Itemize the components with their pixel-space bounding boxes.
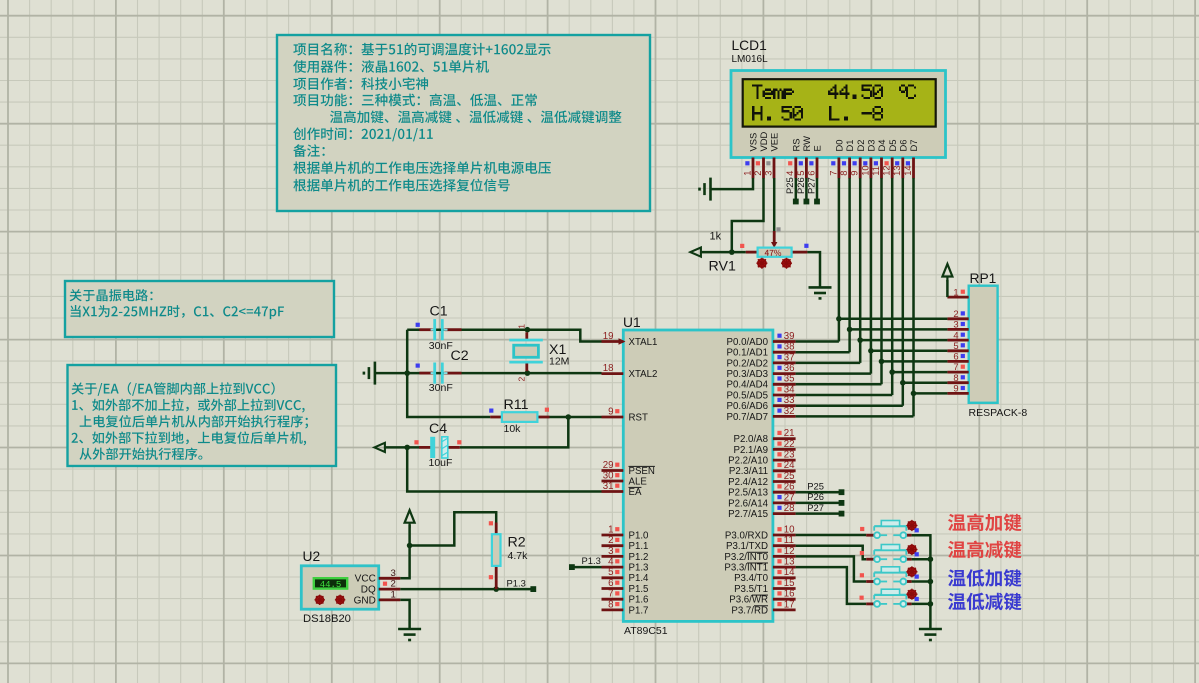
svg-text:P26: P26 [795, 177, 806, 194]
svg-text:D4: D4 [876, 140, 887, 152]
capacitor C2 [419, 372, 432, 375]
svg-text:33: 33 [784, 395, 795, 406]
svg-text:P0.7/AD7: P0.7/AD7 [727, 412, 768, 423]
svg-text:22: 22 [784, 439, 795, 450]
svg-text:EA: EA [629, 487, 642, 498]
svg-text:9: 9 [608, 406, 613, 417]
svg-text:RV1: RV1 [709, 259, 736, 275]
svg-text:DS18B20: DS18B20 [303, 613, 351, 625]
ground for VSS [700, 178, 711, 201]
wire RP1 pin4 branch [860, 339, 947, 342]
RV1 adjust knobs [756, 258, 767, 269]
svg-text:3: 3 [953, 319, 958, 330]
svg-text:1: 1 [391, 589, 396, 600]
svg-text:RP1: RP1 [970, 271, 997, 286]
svg-text:P27: P27 [807, 502, 824, 513]
svg-text:26: 26 [784, 482, 795, 493]
ground left of C2 [364, 362, 375, 385]
LCD screen [743, 79, 936, 126]
U1 right pins [773, 340, 796, 343]
note box EA [68, 365, 337, 466]
svg-text:P1.1: P1.1 [629, 541, 649, 552]
svg-text:30: 30 [603, 470, 614, 481]
U1 XTAL1 drive arrow [619, 338, 626, 344]
svg-text:P3.3/INT1: P3.3/INT1 [724, 563, 768, 574]
svg-text:29: 29 [603, 460, 614, 471]
svg-text:4.7k: 4.7k [508, 550, 529, 562]
svg-text:39: 39 [784, 331, 795, 342]
svg-text:P2.2/A10: P2.2/A10 [728, 456, 768, 467]
svg-text:27: 27 [784, 492, 795, 503]
svg-text:5: 5 [795, 171, 806, 176]
U2 thermometer knobs [315, 595, 325, 605]
svg-text:13: 13 [891, 165, 902, 175]
wire RP1 pin7 branch [892, 371, 947, 374]
LCD LM016L body [731, 71, 946, 158]
svg-text:P25: P25 [807, 480, 824, 491]
wire VDD down to RV1 net [732, 178, 764, 252]
svg-text:P1.4: P1.4 [629, 573, 650, 584]
svg-text:12: 12 [784, 546, 795, 557]
wire P0.7 to LCD D7 column [796, 415, 914, 418]
svg-text:4: 4 [953, 329, 958, 340]
wire LCD D6 vertical [902, 178, 905, 406]
wire P0.0 to LCD D0 column [796, 340, 839, 343]
button 3 actuator [906, 566, 917, 577]
power arrow terminal at C4 left [374, 443, 385, 452]
svg-text:P1.0: P1.0 [629, 530, 650, 541]
svg-text:2: 2 [391, 579, 396, 590]
wire LCD D4 vertical [880, 178, 883, 384]
svg-text:D0: D0 [834, 140, 845, 152]
U2 pin stubs and numbers [379, 577, 401, 580]
wire R11 to RST pin [550, 416, 602, 419]
LCD pin state squares [745, 161, 749, 165]
svg-text:P1.7: P1.7 [629, 605, 649, 616]
svg-text:RS: RS [790, 138, 801, 151]
wire U2 VCC up to power [400, 525, 409, 579]
svg-text:8: 8 [608, 599, 613, 610]
wire P1.3 net terminal [572, 566, 602, 569]
button 2 actuator [906, 544, 917, 555]
svg-text:9: 9 [953, 383, 958, 394]
svg-text:RW: RW [801, 136, 812, 152]
svg-text:7: 7 [608, 589, 613, 600]
svg-text:15: 15 [784, 578, 795, 589]
svg-text:2: 2 [516, 377, 526, 382]
wire XTAL2 net rail [376, 372, 602, 375]
svg-text:5: 5 [608, 567, 613, 578]
svg-text:19: 19 [603, 331, 614, 342]
wire LCD D7 vertical [912, 178, 915, 416]
power arrow terminal at RV1 left [690, 248, 701, 257]
svg-text:AT89C51: AT89C51 [624, 625, 668, 637]
resistor R11 [490, 416, 502, 419]
U1 left pins [602, 340, 624, 343]
power arrow above U2 [405, 510, 415, 528]
wire LCD D2 vertical [859, 178, 862, 363]
svg-text:VEE: VEE [769, 133, 780, 152]
svg-text:23: 23 [784, 450, 795, 461]
wire RP1 pin6 branch [882, 360, 948, 363]
wire VCC branch to R2 top [410, 512, 497, 545]
svg-text:17: 17 [784, 599, 795, 610]
svg-text:P2.7/A15: P2.7/A15 [728, 509, 768, 520]
svg-text:P3.0/RXD: P3.0/RXD [725, 530, 768, 541]
svg-text:P3.4/T0: P3.4/T0 [734, 573, 769, 584]
svg-text:12M: 12M [549, 356, 569, 368]
wire P3.0 to button 1 [796, 534, 867, 537]
svg-text:XTAL2: XTAL2 [629, 369, 658, 380]
power arrow at RP1 [942, 264, 952, 282]
svg-text:9: 9 [849, 171, 860, 176]
svg-text:14: 14 [784, 567, 795, 578]
svg-text:5: 5 [953, 340, 958, 351]
svg-text:37: 37 [784, 352, 795, 363]
svg-text:2: 2 [953, 308, 958, 319]
svg-text:P0.1/AD1: P0.1/AD1 [727, 348, 768, 359]
svg-text:C4: C4 [429, 421, 447, 437]
wire P3.2 to button 3 [796, 556, 867, 581]
wires P2.5 P2.6 P2.7 to net terminals [796, 491, 842, 494]
svg-text:P3.6/WR: P3.6/WR [729, 595, 768, 606]
svg-text:10k: 10k [504, 423, 522, 435]
svg-text:P1.3: P1.3 [582, 555, 601, 566]
svg-text:1: 1 [953, 286, 958, 297]
svg-text:U2: U2 [303, 549, 321, 564]
svg-text:P2.3/A11: P2.3/A11 [729, 466, 768, 477]
wire XTAL1 net top rail [407, 330, 601, 342]
svg-text:P1.3: P1.3 [507, 577, 526, 588]
svg-text:D2: D2 [855, 140, 866, 152]
svg-text:1: 1 [608, 524, 613, 535]
wire RP1 pin9 branch [914, 392, 948, 395]
svg-text:RST: RST [629, 412, 648, 423]
svg-text:P3.5/T1: P3.5/T1 [734, 584, 768, 595]
svg-text:C2: C2 [451, 348, 469, 364]
svg-text:XTAL1: XTAL1 [629, 337, 658, 348]
svg-text:P2.6/A14: P2.6/A14 [728, 498, 768, 509]
svg-text:LM016L: LM016L [732, 54, 769, 65]
svg-text:P1.6: P1.6 [629, 595, 649, 606]
svg-text:2: 2 [608, 535, 613, 546]
label button 1 red [948, 514, 1021, 532]
svg-text:34: 34 [784, 384, 795, 395]
ground below buttons [919, 629, 942, 640]
svg-text:11: 11 [870, 166, 881, 176]
LCD text row2 H. 50 L. -8 [752, 106, 762, 121]
push button 4 [866, 603, 874, 606]
svg-text:38: 38 [784, 342, 795, 353]
wire C4 left junction and EA run [385, 446, 419, 449]
wire RST junction down to C4 [460, 417, 569, 447]
wire LCD D1 vertical [848, 178, 851, 352]
U2 display 44.5 [314, 578, 347, 588]
svg-text:44.5: 44.5 [320, 580, 342, 590]
svg-text:4: 4 [784, 171, 795, 176]
svg-text:RESPACK-8: RESPACK-8 [969, 407, 1028, 419]
wire P0.1 to LCD D1 column [796, 351, 850, 354]
wire LCD D5 vertical [891, 178, 894, 395]
label button 4 blue [948, 593, 1021, 611]
svg-text:P27: P27 [805, 177, 816, 194]
svg-text:LCD1: LCD1 [732, 38, 767, 53]
svg-text:P0.3/AD3: P0.3/AD3 [727, 369, 768, 380]
svg-text:14: 14 [902, 165, 913, 175]
svg-text:C1: C1 [430, 304, 448, 320]
resistor pack RP1 body [969, 286, 998, 403]
wire P0.5 to LCD D5 column [796, 394, 893, 397]
svg-text:1: 1 [517, 324, 527, 329]
wire P0.2 to LCD D2 column [796, 362, 861, 365]
svg-text:10: 10 [859, 165, 870, 175]
svg-text:4: 4 [608, 557, 614, 568]
wire P3.3 to button 4 [796, 567, 867, 604]
svg-text:16: 16 [784, 589, 795, 600]
RV1 state squares [740, 244, 744, 248]
push button 2 [866, 558, 874, 561]
resistor R2 [495, 523, 498, 535]
button 4 actuator [906, 589, 917, 600]
svg-text:7: 7 [827, 171, 838, 176]
label button 2 red [948, 541, 1021, 559]
capacitor C1 [419, 328, 432, 331]
svg-text:1: 1 [741, 171, 752, 176]
wire DQ to P1.3 terminal [400, 588, 533, 591]
svg-text:3: 3 [608, 546, 613, 557]
svg-text:28: 28 [784, 503, 795, 514]
svg-text:8: 8 [838, 171, 849, 176]
wire buttons to ground rail [912, 535, 931, 629]
wire LCD D3 vertical [870, 178, 873, 374]
svg-text:P2.4/A12: P2.4/A12 [728, 477, 768, 488]
svg-text:11: 11 [784, 535, 794, 546]
project info text box [277, 35, 650, 211]
svg-text:1k: 1k [710, 231, 722, 243]
wire RV1 left net with junction [701, 251, 746, 254]
wire RP1 pin1 to power [946, 280, 949, 297]
wire RP1 pin2 branch [839, 318, 948, 321]
svg-text:36: 36 [784, 363, 795, 374]
svg-text:U1: U1 [623, 315, 641, 330]
svg-text:35: 35 [784, 374, 795, 385]
wire left rail C1-C2-RST [407, 330, 490, 417]
svg-text:VDD: VDD [758, 131, 769, 151]
ground at RV1 [809, 287, 832, 298]
svg-text:21: 21 [784, 428, 795, 439]
svg-text:P0.5/AD5: P0.5/AD5 [727, 390, 768, 401]
svg-text:18: 18 [603, 363, 614, 374]
wire VSS to ground [711, 178, 753, 189]
RP1 pin stubs and numbers [947, 296, 968, 299]
wire U2 GND to ground [400, 600, 409, 629]
push button 3 [866, 580, 874, 583]
svg-text:GND: GND [354, 595, 376, 606]
ground below U2 [398, 629, 421, 640]
svg-text:P2.1/A9: P2.1/A9 [734, 445, 768, 456]
wire RP1 pin3 branch [850, 328, 948, 331]
svg-text:10uF: 10uF [429, 457, 453, 469]
button 1 actuator [906, 520, 917, 531]
svg-text:D5: D5 [887, 140, 898, 152]
svg-text:12: 12 [881, 165, 892, 175]
crystal X1 [525, 327, 531, 333]
svg-text:D7: D7 [908, 140, 919, 152]
svg-text:P3.1/TXD: P3.1/TXD [726, 541, 768, 552]
svg-text:R2: R2 [508, 535, 526, 551]
svg-text:6: 6 [953, 351, 958, 362]
svg-text:7: 7 [953, 361, 958, 372]
svg-text:P0.4/AD4: P0.4/AD4 [727, 380, 769, 391]
wire VEE down to RV1 wiper [773, 178, 776, 231]
svg-text:P1.2: P1.2 [629, 552, 649, 563]
wire P3.1 to button 2 [796, 546, 867, 560]
svg-text:R11: R11 [504, 397, 529, 413]
svg-text:P3.7/RD: P3.7/RD [731, 605, 768, 616]
svg-text:VCC: VCC [355, 574, 376, 585]
svg-text:32: 32 [784, 406, 795, 417]
svg-text:8: 8 [953, 372, 958, 383]
svg-text:13: 13 [784, 557, 795, 568]
svg-text:6: 6 [608, 578, 613, 589]
svg-text:E: E [812, 145, 823, 151]
svg-text:P2.0/A8: P2.0/A8 [734, 434, 768, 445]
svg-text:3: 3 [391, 568, 396, 579]
svg-text:3: 3 [762, 171, 773, 176]
svg-text:6: 6 [805, 171, 816, 176]
mcu U1 AT89C51 body [623, 330, 773, 621]
push button 1 [866, 534, 874, 537]
svg-text:P0.2/AD2: P0.2/AD2 [727, 358, 768, 369]
wire RP1 pin8 branch [903, 381, 948, 384]
LCD text row1 Temp 44.50 C [752, 84, 762, 99]
svg-text:DQ: DQ [361, 585, 376, 596]
note box crystal [65, 281, 334, 337]
svg-text:30nF: 30nF [429, 382, 453, 394]
svg-text:P2.5/A13: P2.5/A13 [728, 488, 768, 499]
svg-text:P3.2/INT0: P3.2/INT0 [724, 552, 768, 563]
svg-text:D1: D1 [844, 140, 855, 152]
svg-text:P0.0/AD0: P0.0/AD0 [727, 337, 769, 348]
wire P0.3 to LCD D3 column [796, 372, 871, 375]
label button 3 blue [948, 569, 1021, 587]
svg-text:31: 31 [603, 481, 614, 492]
sensor U2 DS18B20 body [301, 566, 378, 609]
svg-text:25: 25 [784, 471, 795, 482]
svg-text:P1.3: P1.3 [629, 563, 649, 574]
svg-text:P0.6/AD6: P0.6/AD6 [727, 401, 768, 412]
wire LCD D0 vertical [838, 178, 841, 342]
LCD pin stubs [752, 158, 755, 179]
svg-text:ALE: ALE [629, 476, 648, 487]
svg-text:24: 24 [784, 460, 795, 471]
svg-text:PSEN: PSEN [629, 466, 655, 477]
svg-text:P1.5: P1.5 [629, 584, 649, 595]
wire P0.4 to LCD D4 column [796, 383, 882, 386]
svg-text:VSS: VSS [748, 133, 759, 152]
potentiometer RV1 [746, 251, 758, 254]
svg-text:30nF: 30nF [429, 340, 453, 352]
capacitor C4 electrolytic [419, 446, 432, 449]
wire RV1 right to ground [807, 252, 820, 287]
svg-text:D6: D6 [897, 140, 908, 152]
svg-text:2: 2 [752, 171, 763, 176]
svg-text:P25: P25 [784, 177, 795, 194]
svg-text:D3: D3 [866, 140, 877, 152]
wire RP1 pin5 branch [871, 350, 948, 353]
wire P0.6 to LCD D6 column [796, 404, 903, 407]
svg-text:10: 10 [784, 524, 795, 535]
wires RS RW E to P25 P26 P27 terminals [795, 178, 798, 202]
svg-text:P26: P26 [807, 491, 824, 502]
